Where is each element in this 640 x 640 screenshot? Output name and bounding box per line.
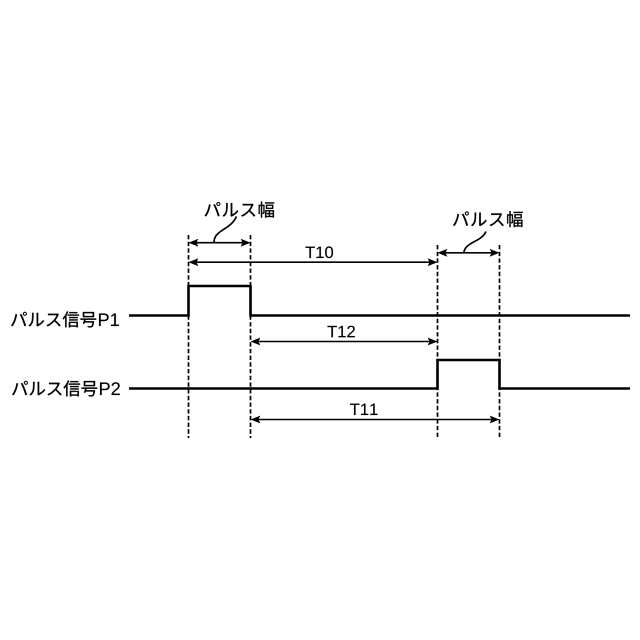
dashed guide at P2 pulse falling edge bbox=[499, 245, 501, 438]
signal trace P2 with pulse bbox=[129, 360, 630, 389]
leader line from right パルス幅 label bbox=[464, 232, 486, 253]
T12 dimension arrow bbox=[251, 338, 438, 346]
label T11 bbox=[350, 404, 377, 415]
label パルス幅 (left pulse width) bbox=[205, 202, 275, 218]
dashed guide at P1 pulse falling edge bbox=[250, 235, 252, 438]
T11 dimension arrow bbox=[251, 416, 500, 424]
dashed guide at P1 pulse rising edge bbox=[188, 235, 190, 438]
pulse-width dimension arrow (left, P1) bbox=[189, 239, 251, 247]
label パルス幅 (right pulse width) bbox=[453, 211, 523, 227]
pulse-width dimension arrow (right, P2) bbox=[438, 249, 500, 257]
leader line from left パルス幅 label bbox=[214, 217, 237, 243]
label パルス信号P2 bbox=[12, 380, 120, 396]
label パルス信号P1 bbox=[11, 311, 119, 327]
T10 dimension arrow bbox=[189, 258, 438, 266]
label T12 bbox=[327, 326, 354, 338]
dashed guide at P2 pulse rising edge bbox=[437, 245, 439, 438]
signal trace P1 with pulse bbox=[129, 286, 630, 316]
label T10 bbox=[305, 246, 333, 258]
